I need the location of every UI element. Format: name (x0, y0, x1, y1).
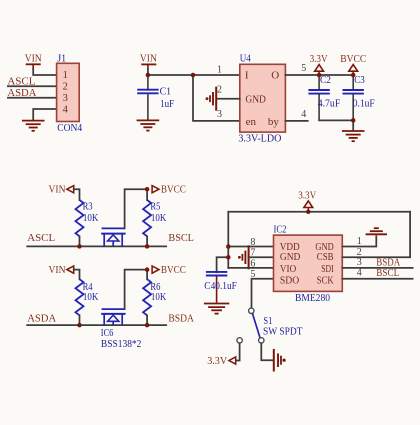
wire ASCL to J1 pin 2 (8, 85, 57, 87)
power port 3.3V (IC2) (298, 189, 316, 211)
svg-text:10K: 10K (151, 291, 167, 303)
svg-text:1uF: 1uF (160, 98, 174, 110)
svg-text:BVCC: BVCC (161, 264, 186, 276)
label R3 (83, 201, 99, 225)
power port BVCC (340, 53, 366, 75)
svg-text:10K: 10K (83, 291, 99, 303)
svg-text:2: 2 (63, 82, 68, 93)
transistor Q1 (BSS138 half A) (101, 228, 125, 246)
svg-text:I: I (245, 70, 249, 82)
wire SDO pin 5 to switch (252, 279, 274, 308)
svg-text:1: 1 (217, 65, 222, 76)
junction at BVCC (351, 73, 356, 78)
sensor IC2 body (274, 223, 343, 291)
svg-text:BSDA: BSDA (168, 312, 194, 324)
svg-text:O: O (271, 69, 279, 81)
wire VIN to R3 (74, 189, 80, 200)
wire IC6 drain to BVCC (125, 270, 148, 310)
svg-text:J1: J1 (57, 52, 66, 64)
wire pin 7 GND (249, 256, 274, 258)
label R6 (150, 281, 166, 303)
svg-text:CSB: CSB (317, 251, 334, 263)
op-amp U4 regulator body (240, 53, 286, 133)
svg-text:1: 1 (63, 70, 68, 81)
ground (C1) (137, 120, 160, 130)
svg-text:by: by (268, 116, 280, 128)
wire throw B to ground (261, 343, 273, 360)
svg-text:4: 4 (63, 105, 69, 116)
switch S1 throw B contact (259, 338, 264, 343)
svg-text:8: 8 (250, 237, 255, 248)
svg-text:3: 3 (357, 257, 362, 268)
wire 3.3V rail (IC2) (228, 211, 410, 213)
svg-text:VIN: VIN (140, 53, 157, 65)
label C1 value (160, 86, 175, 111)
junction at C1 top (146, 73, 151, 78)
junction at 3.3V (317, 73, 322, 78)
svg-text:SCK: SCK (317, 274, 334, 286)
wire Q1 drain to BVCC (125, 189, 148, 228)
svg-text:2: 2 (217, 85, 222, 96)
svg-text:C1: C1 (160, 86, 172, 98)
resistor R6 (143, 279, 151, 315)
resistor R3 (76, 200, 84, 236)
svg-text:C3: C3 (354, 74, 365, 86)
svg-text:1: 1 (357, 236, 362, 247)
svg-text:en: en (246, 116, 257, 128)
ground (IC2 pin 7, sideways) (238, 245, 249, 269)
resistor R4 (76, 279, 84, 315)
ground (switch, sideways) (274, 349, 286, 372)
svg-text:BVCC: BVCC (340, 53, 366, 65)
wire to U4 en pin 3 (193, 75, 240, 121)
svg-text:6: 6 (250, 258, 255, 269)
svg-text:BSS138*2: BSS138*2 (101, 339, 141, 350)
label C4 value (204, 280, 237, 292)
capacitor C2 (308, 75, 329, 120)
wire C4 branch (217, 257, 229, 272)
svg-text:ASCL: ASCL (27, 232, 55, 244)
resistor R5 (143, 200, 151, 236)
wire GND pin 1 (342, 236, 376, 246)
wire CSB pin 2 to 3.3V (342, 212, 410, 257)
wire R4 to ASDA (79, 315, 81, 325)
wire C2 C3 bottom (319, 119, 353, 121)
svg-text:C2: C2 (320, 74, 331, 86)
svg-text:VIN: VIN (49, 264, 66, 276)
svg-text:4: 4 (301, 109, 306, 120)
junction R6/BSDA (145, 323, 150, 328)
wire VIN rail to U4 pin 1 (148, 69, 240, 75)
svg-text:10K: 10K (151, 212, 167, 224)
svg-text:SDO: SDO (280, 274, 299, 286)
svg-text:BME280: BME280 (295, 292, 330, 304)
svg-text:3: 3 (63, 93, 68, 104)
junction C4 branch (226, 255, 231, 260)
label R5 (150, 201, 166, 225)
svg-text:BSCL: BSCL (168, 232, 194, 244)
wire U4 GND pin 2 (216, 98, 239, 100)
wire to VDD pin 8 (228, 246, 273, 248)
power port BVCC (R6) (152, 264, 186, 276)
wire BVCC to R5 (146, 189, 148, 200)
junction 3.3V rail (306, 210, 311, 215)
wire ASDA to J1 pin 3 (8, 97, 57, 99)
svg-text:VIN: VIN (25, 52, 42, 64)
svg-text:VIN: VIN (49, 184, 66, 196)
junction BVCC/R5 (145, 187, 150, 192)
label C2 value (318, 74, 341, 110)
wire R5 to BSCL (146, 236, 148, 246)
power port VIN (J1) (25, 52, 42, 70)
junction at cap ground (351, 118, 356, 123)
svg-text:R5: R5 (150, 201, 160, 213)
svg-text:10K: 10K (83, 212, 99, 224)
capacitor C4 (206, 272, 227, 303)
wire SDI pin 3 (342, 267, 412, 269)
svg-text:IC6: IC6 (101, 327, 114, 339)
svg-text:0.1uF: 0.1uF (215, 280, 237, 292)
power port VIN (R3) (49, 184, 74, 196)
capacitor C3 (343, 75, 364, 120)
svg-text:4.7uF: 4.7uF (318, 98, 341, 110)
svg-text:U4: U4 (240, 53, 251, 65)
wire left supply rail (227, 212, 229, 268)
power port VIN (C1) (140, 53, 157, 70)
svg-text:ASDA: ASDA (27, 312, 56, 324)
svg-text:GND: GND (245, 94, 266, 106)
power port 3.3V (switch) (207, 355, 236, 367)
ground (J1 pin 4) (22, 121, 45, 131)
label R4 (83, 281, 99, 303)
svg-text:SW SPDT: SW SPDT (263, 326, 303, 338)
connector J1 (57, 52, 80, 121)
svg-text:GND: GND (280, 251, 301, 263)
svg-text:BVCC: BVCC (161, 184, 186, 196)
svg-text:C4: C4 (204, 280, 215, 292)
wire cap ground stem (352, 120, 354, 130)
wire SCK pin 4 (342, 278, 412, 280)
wire VIN to R4 (74, 270, 80, 280)
svg-text:R3: R3 (83, 201, 93, 213)
svg-text:3: 3 (217, 109, 222, 120)
junction VDD (226, 244, 231, 249)
svg-text:3.3V: 3.3V (207, 355, 227, 367)
svg-text:IC2: IC2 (274, 223, 287, 235)
svg-text:VIO: VIO (280, 263, 296, 275)
junction R5/BSCL (145, 244, 150, 249)
switch S1 throw A contact (237, 338, 242, 343)
wire U4 by pin 4 stub (285, 120, 307, 122)
ground (C2 C3) (342, 131, 365, 141)
svg-text:4: 4 (357, 268, 362, 279)
junction BVCC/R6 (145, 267, 150, 272)
wire to VIO pin 6 (228, 267, 273, 269)
ground (C4) (204, 304, 229, 314)
wire R6 to BSDA (146, 315, 148, 325)
svg-text:0.1uF: 0.1uF (353, 98, 375, 110)
power port VIN (R4) (49, 264, 74, 276)
svg-text:7: 7 (250, 248, 255, 259)
svg-text:CON4: CON4 (57, 122, 82, 134)
power port BVCC (R5) (152, 184, 186, 196)
svg-text:SDI: SDI (321, 263, 334, 275)
svg-text:5: 5 (301, 63, 306, 74)
svg-text:3.3V-LDO: 3.3V-LDO (238, 132, 281, 144)
ground (IC2 pin 1, inverted) (366, 228, 387, 234)
power port 3.3V (LDO out) (310, 53, 328, 75)
wire R3 to ASCL (79, 236, 81, 246)
wire VIN to J1 pin 1 (33, 69, 56, 75)
wire ASCL bus (27, 245, 166, 247)
svg-text:3.3V: 3.3V (310, 53, 328, 65)
switch S1 common contact (249, 308, 254, 313)
svg-text:5: 5 (250, 269, 255, 280)
label C3 value (353, 74, 375, 110)
wire BVCC to R6 (146, 270, 148, 280)
svg-text:BSCL: BSCL (376, 267, 399, 279)
junction at en branch (191, 73, 196, 78)
transistor IC6 (BSS138 half B) (101, 309, 125, 325)
junction R3/ASCL (77, 244, 82, 249)
junction R4/ASDA (77, 323, 82, 328)
wire throw A to 3.3V (236, 343, 240, 360)
switch S1 lever (252, 313, 260, 337)
ground (U4 pin 2, sideways) (206, 87, 217, 111)
wire J1 pin 4 to ground (33, 109, 56, 120)
capacitor C1 (137, 75, 158, 120)
wire U4 output rail (285, 74, 353, 76)
wire ASDA bus (27, 324, 166, 326)
svg-text:3.3V: 3.3V (298, 189, 316, 201)
